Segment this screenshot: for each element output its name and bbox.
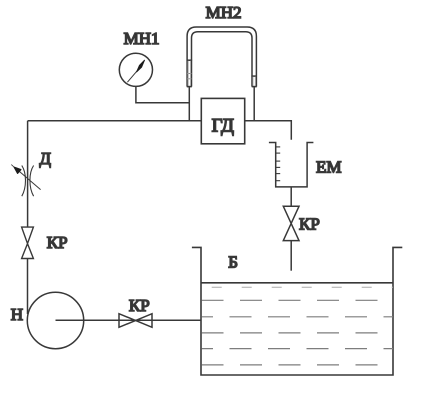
tank liquid dashes row 5 (202, 348, 394, 350)
pump Н circle (27, 292, 83, 348)
throttle Д curves (22, 166, 34, 197)
throttle Д adjustment arrow (11, 165, 40, 190)
svg-text:КР: КР (47, 233, 68, 252)
valve КР (below ЕМ) (283, 206, 299, 240)
valve КР (suction line) (119, 314, 152, 328)
measuring vessel ЕМ (269, 143, 314, 187)
tank liquid dashes row 1 (202, 286, 393, 288)
wire pump suction line to tank (56, 319, 202, 321)
tank liquid surface line (201, 282, 393, 284)
МН2 left tube end cap (187, 86, 192, 88)
ЕМ scale ticks (276, 147, 281, 181)
МН2 right tube end cap (252, 86, 257, 88)
hydraulic motor box ГД (201, 98, 244, 143)
wire main pipe to ГД left (28, 120, 202, 122)
tank Б walls (192, 247, 402, 375)
wire МН1 stem down to junction (136, 86, 189, 102)
valve КР (left branch) (22, 227, 34, 258)
МН2 left tube liquid column shading (188, 61, 190, 86)
U-tube manometer МН2 outer tube wall (187, 27, 256, 87)
wire left branch vertical (27, 121, 29, 227)
wire valve to tank (290, 241, 292, 271)
МН2 right leg liquid level tick (251, 75, 257, 77)
pressure gauge МН1 (119, 53, 152, 86)
wire МН2 left leg down to main pipe (188, 87, 190, 122)
U-tube manometer МН2 inner tube wall (192, 32, 253, 87)
wire ГД right pipe to ЕМ inlet (245, 121, 292, 140)
МН2 right tube liquid column shading (253, 77, 255, 86)
tank liquid dashes row 6 (202, 364, 394, 366)
svg-text:КР: КР (129, 296, 150, 315)
svg-text:Б: Б (228, 253, 238, 272)
svg-text:МН2: МН2 (206, 3, 242, 22)
svg-text:Н: Н (11, 305, 23, 324)
МН2 left leg faint tick 2 (187, 78, 191, 80)
tank liquid dashes row 2 (202, 299, 394, 301)
tank liquid dashes row 4 (202, 332, 394, 334)
svg-text:Д: Д (39, 149, 51, 168)
wire ЕМ outlet down to valve (290, 187, 292, 206)
svg-text:КР: КР (299, 215, 320, 234)
wire valve to pump (27, 259, 29, 315)
МН2 left leg liquid level tick (187, 59, 193, 61)
svg-text:МН1: МН1 (124, 29, 160, 48)
svg-text:ЕМ: ЕМ (316, 158, 342, 177)
svg-text:ГД: ГД (212, 115, 234, 136)
tank liquid dashes row 3 (202, 316, 394, 318)
МН2 left leg faint tick (187, 73, 191, 75)
wire МН2 right leg down to right pipe (253, 87, 255, 122)
